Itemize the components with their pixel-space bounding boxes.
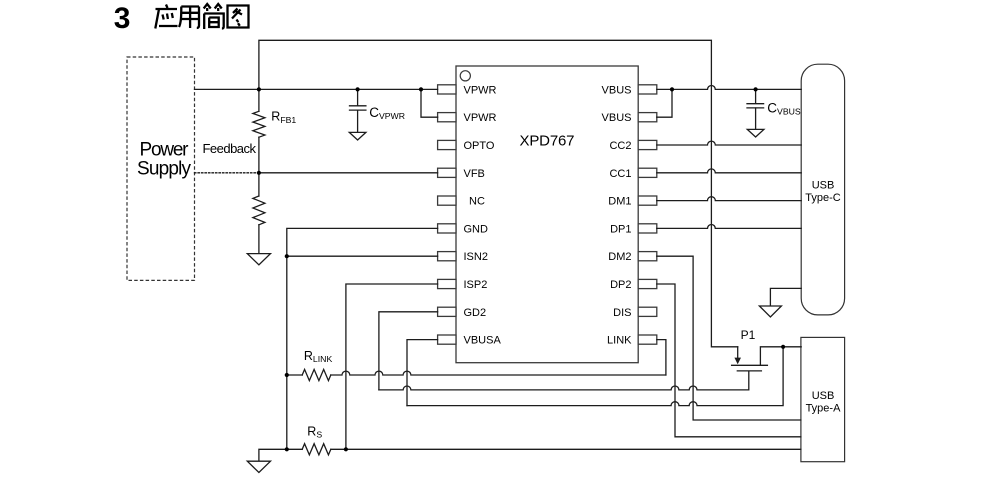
- svg-text:VBUSA: VBUSA: [464, 335, 502, 347]
- svg-text:XPD767: XPD767: [520, 133, 575, 150]
- pin DIS (right 9): [613, 307, 657, 319]
- wire: lower divider lead: [258, 173, 260, 196]
- junction (258.9,89.4): [257, 87, 261, 91]
- svg-text:DP2: DP2: [610, 279, 631, 291]
- svg-text:Feedback: Feedback: [203, 141, 257, 156]
- wire: VBUS pin to Type-C: [657, 86, 801, 90]
- wire: RS rail left + ground drop: [259, 449, 302, 461]
- pin GND (left 6): [438, 223, 488, 235]
- pin DM1 (right 5): [608, 196, 657, 208]
- pin ISP2 (left 8): [438, 279, 488, 291]
- wire: feedback dotted line: [195, 172, 259, 174]
- junction (286.8,449.3): [285, 447, 289, 451]
- svg-text:GND: GND: [464, 223, 489, 235]
- wire: gate wire GD2 to P1 gate: [379, 372, 749, 390]
- pin CC1 (right 4): [609, 168, 656, 180]
- wire: DM2 to Type-A: [657, 256, 801, 420]
- junction (421,89.4): [419, 87, 423, 91]
- wire: RLINK left lead: [287, 374, 302, 376]
- wire: top loop rail to P1 drain: [259, 40, 738, 347]
- resistor RLINK: [302, 369, 331, 380]
- svg-text:DM2: DM2: [608, 251, 631, 263]
- svg-text:Power: Power: [140, 140, 190, 161]
- wire: ISP2 down to RS node: [346, 284, 438, 449]
- pin VBUSA (left 10): [438, 335, 502, 347]
- wire: CVBUS bottom lead: [755, 108, 757, 129]
- pin VBUS (right 2): [602, 112, 657, 124]
- wire: VBUS pin2 jog: [657, 89, 672, 117]
- svg-text:GD2: GD2: [464, 307, 487, 319]
- pin DP1 (right 6): [610, 223, 657, 235]
- junction (286.8,375.0): [285, 373, 289, 377]
- svg-text:Type-A: Type-A: [806, 403, 842, 415]
- wire: power rail from supply to VPWR pin: [195, 88, 438, 90]
- wire: GND pin to ground bus: [287, 228, 438, 449]
- pin VPWR (left 1): [438, 84, 497, 96]
- pin OPTO (left 3): [438, 140, 495, 152]
- wire: CC1 to Type-C: [657, 169, 801, 173]
- pin VFB (left 4): [438, 168, 485, 180]
- ground (bottom left): [247, 461, 270, 472]
- svg-text:DIS: DIS: [613, 307, 631, 319]
- junction (755.6,89.4): [754, 87, 758, 91]
- svg-text:CC1: CC1: [609, 168, 631, 180]
- resistor RFB1: [253, 111, 265, 137]
- pin NC (left 5): [438, 196, 485, 208]
- junction (286.8,256.2): [285, 254, 289, 258]
- wire: Type-C shield to ground: [770, 288, 801, 306]
- svg-text:DP1: DP1: [610, 223, 631, 235]
- svg-text:USB: USB: [812, 390, 835, 402]
- junction (258.9,172.8): [257, 171, 261, 175]
- svg-text:NC: NC: [469, 196, 485, 208]
- svg-text:OPTO: OPTO: [464, 140, 495, 152]
- svg-text:VBUS: VBUS: [602, 84, 632, 96]
- wire: VBUSA down: [407, 340, 438, 406]
- wire: GD2 down: [379, 312, 438, 390]
- wire: CVPWR bottom lead: [357, 110, 359, 132]
- pin GD2 (left 9): [438, 307, 487, 319]
- resistor RS: [302, 444, 331, 455]
- wire: CVBUS top lead: [755, 89, 757, 103]
- pin DM2 (right 7): [608, 251, 657, 263]
- pin CC2 (right 3): [609, 140, 656, 152]
- wire: RFB1 bottom to feedback node: [258, 137, 260, 173]
- svg-text:CC2: CC2: [609, 140, 631, 152]
- wire: RS rail to USB Type-A: [331, 448, 801, 450]
- wire: RFB1 top lead: [258, 89, 260, 111]
- junction (357.6,89.4): [356, 87, 360, 91]
- svg-text:LINK: LINK: [607, 335, 632, 347]
- wire: RLINK net: [331, 371, 666, 375]
- wire: ISN2 to ground bus: [287, 255, 438, 257]
- svg-text:Type-C: Type-C: [805, 192, 841, 204]
- svg-text:ISN2: ISN2: [464, 251, 488, 263]
- ground (divider): [247, 254, 270, 265]
- junction (672,89.4): [670, 87, 674, 91]
- svg-text:USB: USB: [812, 180, 835, 192]
- wire: VBUSA to TypeA VBUS node: [407, 347, 783, 406]
- svg-text:VPWR: VPWR: [464, 84, 497, 96]
- op-amp/IC U1 XPD767 body: [456, 66, 638, 363]
- junction (783.1,346.8): [781, 345, 785, 349]
- power supply box: [127, 57, 195, 280]
- wire: VPWR pin2 jog: [421, 89, 438, 117]
- wire: CC2 to Type-C: [657, 141, 801, 145]
- svg-text:DM1: DM1: [608, 196, 631, 208]
- ground (Type-C shield): [759, 306, 781, 317]
- svg-text:P1: P1: [741, 328, 756, 342]
- svg-text:VPWR: VPWR: [464, 112, 497, 124]
- USB Type-A connector: [801, 337, 845, 461]
- resistor R divider lower: [253, 196, 265, 225]
- wire: DP1 to Type-C: [657, 224, 801, 228]
- capacitor CVPWR plates: [350, 106, 366, 110]
- USB Type-C connector: [801, 64, 844, 315]
- transistor P1 (pass FET): [732, 328, 802, 371]
- wire: LINK pin jog down: [657, 340, 666, 375]
- svg-text:Supply: Supply: [137, 159, 192, 180]
- pin VPWR (left 2): [438, 112, 497, 124]
- wire: DP2 to Type-A: [657, 284, 801, 437]
- junction (345.9,449.3): [344, 447, 348, 451]
- ground (CVBUS): [747, 129, 764, 137]
- wire: VFB to feedback node: [259, 172, 438, 174]
- pin DP2 (right 8): [610, 279, 657, 291]
- title: Chinese 应用简图 (drawn strokes): [155, 4, 248, 29]
- pin VBUS (right 1): [602, 84, 657, 96]
- ground (CVPWR): [349, 132, 366, 140]
- svg-text:VFB: VFB: [464, 168, 485, 180]
- pin ISN2 (left 7): [438, 251, 488, 263]
- wire: CVPWR top lead: [357, 89, 359, 105]
- pin LINK (right 10): [607, 335, 657, 347]
- wire: DM1 to Type-C: [657, 197, 801, 201]
- wire: divider to ground: [258, 225, 260, 254]
- capacitor CVBUS plates: [747, 104, 764, 108]
- svg-text:VBUS: VBUS: [602, 112, 632, 124]
- svg-text:3: 3: [114, 2, 131, 35]
- svg-text:ISP2: ISP2: [464, 279, 488, 291]
